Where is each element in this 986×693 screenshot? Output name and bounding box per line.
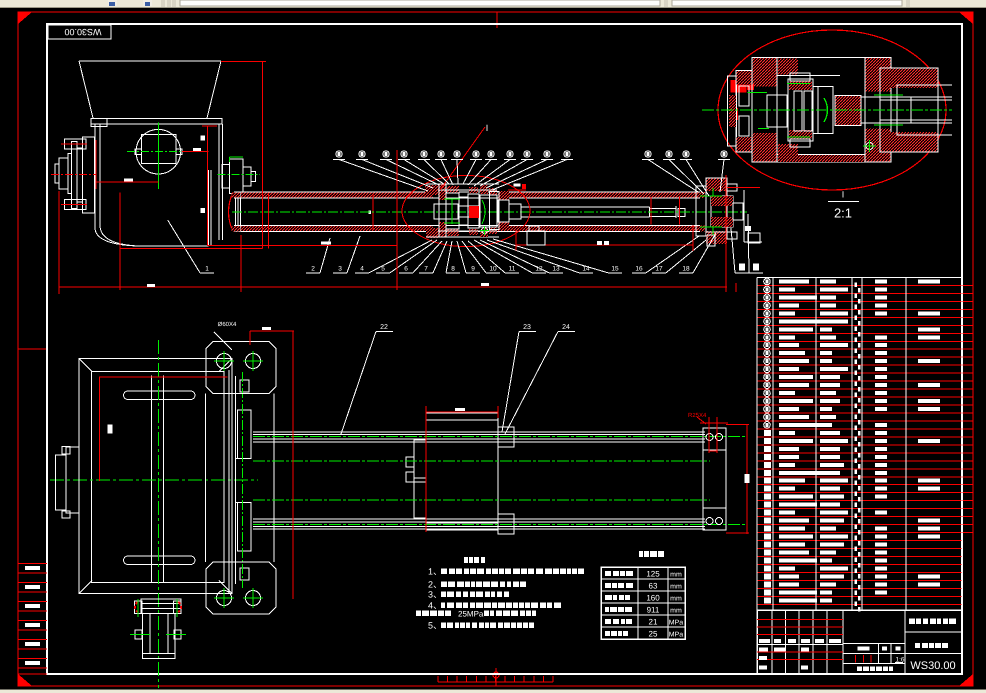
input coupling flange (left) xyxy=(55,137,95,213)
dim pipe length (mid) xyxy=(207,126,397,246)
drive housing right of gearbox xyxy=(222,159,255,194)
tank paddle upper xyxy=(124,391,196,400)
screw shaft inside casing (right) xyxy=(521,206,685,218)
detail label I 2:1 xyxy=(828,190,859,221)
corner mark top-left xyxy=(18,12,32,24)
technical notes lines xyxy=(428,567,584,631)
svg-text:1、: 1、 xyxy=(428,567,442,577)
svg-text:mm: mm xyxy=(670,572,682,579)
svg-text:21: 21 xyxy=(649,618,658,627)
drive housing centerline xyxy=(217,174,259,176)
drive housing green contour xyxy=(230,157,243,162)
guide tube centerlines xyxy=(253,437,745,525)
label fi60X4 xyxy=(214,321,237,350)
part 17 bracket xyxy=(744,190,762,243)
centering mark right xyxy=(955,348,973,350)
svg-text:15: 15 xyxy=(611,266,619,273)
tank-plate connection xyxy=(229,370,251,592)
svg-text:22: 22 xyxy=(380,324,388,331)
dim cylinder top xyxy=(426,406,498,418)
leader 22 xyxy=(341,324,393,434)
screw shaft centerline xyxy=(232,211,747,213)
detail view housing block xyxy=(752,58,891,163)
mid assembly small hole w/ green cross xyxy=(480,226,489,235)
svg-text:mm: mm xyxy=(670,584,682,591)
corner mark bottom-left xyxy=(18,674,32,686)
svg-text:17: 17 xyxy=(655,266,663,273)
svg-text:25: 25 xyxy=(649,630,658,639)
svg-text:I: I xyxy=(486,123,489,133)
detail view shaft chain xyxy=(767,73,952,147)
tank center shaft housing xyxy=(152,376,164,584)
parameter table grid xyxy=(601,567,685,639)
right end plate xyxy=(703,428,726,530)
svg-text:9: 9 xyxy=(471,266,475,273)
svg-text:125: 125 xyxy=(646,570,660,579)
svg-text:24: 24 xyxy=(562,324,570,331)
dim tank inner (red, inside) xyxy=(99,377,228,481)
svg-text:4、: 4、 xyxy=(428,601,442,611)
tank left flange xyxy=(56,447,79,519)
mid assembly green details xyxy=(444,199,485,224)
mounting plate (octagon) xyxy=(206,342,277,614)
dim discharge end (red verticals right) xyxy=(726,175,736,292)
gearbox hole centerlines xyxy=(127,122,181,189)
gearbox weld dots xyxy=(201,136,206,214)
discharge end green marks xyxy=(700,188,722,235)
casing pipe hatched walls xyxy=(234,192,705,231)
svg-text:4: 4 xyxy=(360,266,364,273)
detail view gland stack left xyxy=(728,71,753,152)
svg-text:3: 3 xyxy=(338,266,342,273)
svg-text:MPa: MPa xyxy=(669,632,684,639)
svg-text:3、: 3、 xyxy=(428,590,442,600)
svg-text:mm: mm xyxy=(670,608,682,615)
tank paddle lower xyxy=(124,556,196,565)
discharge end assembly xyxy=(696,178,743,246)
red section mark x373 xyxy=(372,193,374,230)
leader to detail I xyxy=(440,123,488,190)
svg-text:7: 7 xyxy=(424,266,428,273)
gearbox body xyxy=(95,124,222,246)
parameter table heading xyxy=(639,551,643,557)
centering mark top xyxy=(496,12,498,28)
twin guide tubes xyxy=(253,432,705,529)
notes heading xyxy=(464,557,468,563)
dim hopper top xyxy=(120,62,269,249)
tank centerline vertical xyxy=(157,340,159,688)
casing pipe outline xyxy=(234,192,700,231)
marker blob near part 17 xyxy=(745,226,751,231)
centering comb bottom xyxy=(438,668,553,686)
leader 23 xyxy=(502,324,536,432)
extension line x397 xyxy=(396,150,398,290)
bottom discharge tube xyxy=(135,599,182,659)
connection centerline xyxy=(242,372,244,588)
detail view end cap right xyxy=(880,68,952,152)
svg-text:63: 63 xyxy=(649,582,658,591)
red section marks on casing xyxy=(651,197,679,225)
corner mark top-right xyxy=(959,12,973,24)
svg-text:2:1: 2:1 xyxy=(834,206,852,221)
detail view I boundary ellipse xyxy=(718,30,946,190)
svg-text:mm: mm xyxy=(670,596,682,603)
svg-text:MPa: MPa xyxy=(669,620,684,627)
bolt centerlines (red) xyxy=(61,144,87,204)
dim circle position xyxy=(96,140,158,189)
leader 24 xyxy=(505,324,575,434)
casing support bracket xyxy=(527,226,545,245)
callout bubbles top row xyxy=(333,151,730,196)
hopper xyxy=(79,61,222,127)
svg-text:8: 8 xyxy=(451,266,455,273)
detail boundary ellipse I xyxy=(402,176,530,247)
svg-text:23: 23 xyxy=(523,324,531,331)
bearing ball red xyxy=(469,206,479,218)
title block xyxy=(757,610,962,674)
note 4b with 25MPa xyxy=(416,610,536,619)
corner mark bottom-right xyxy=(959,674,973,686)
detail view red seal patches xyxy=(731,80,755,120)
svg-text:5、: 5、 xyxy=(428,621,442,631)
svg-text:2、: 2、 xyxy=(428,580,442,590)
dim plate width (top) xyxy=(250,327,294,599)
svg-text:10: 10 xyxy=(489,266,497,273)
svg-text:160: 160 xyxy=(646,594,660,603)
dim casing right (mid) xyxy=(516,225,693,251)
svg-text:1: 1 xyxy=(205,266,209,273)
hydraulic cylinder block xyxy=(406,413,514,534)
dim plate height (right) xyxy=(726,425,750,535)
casing left dome (red) xyxy=(229,192,241,231)
mixer tank outline xyxy=(79,359,232,594)
status strip (bottom, cropped) xyxy=(0,689,986,693)
tank centerline horizontal xyxy=(50,479,258,481)
svg-text:18: 18 xyxy=(682,266,690,273)
centering mark left xyxy=(18,348,47,350)
input axis centerline (red) xyxy=(51,174,96,176)
dim circle to wall xyxy=(182,126,217,151)
detail view green accents xyxy=(702,84,952,152)
discharge flange bolt marks xyxy=(130,599,186,635)
svg-text:WS30.00: WS30.00 xyxy=(64,27,101,37)
svg-text:11: 11 xyxy=(509,266,516,273)
svg-text:Ø60X4: Ø60X4 xyxy=(218,321,237,328)
application toolbar strip (top, cropped) xyxy=(0,0,986,8)
svg-text:16: 16 xyxy=(635,266,643,273)
svg-text:13: 13 xyxy=(552,266,560,273)
dim cylinder block left (red vertical) xyxy=(425,412,427,532)
svg-text:25MPa: 25MPa xyxy=(458,610,484,619)
dim overall length (bottom) xyxy=(59,191,727,294)
plate bolts xyxy=(214,351,263,608)
title tag WS30.00 (mirrored, top-left) xyxy=(48,25,111,39)
BOM table xyxy=(757,278,973,612)
centerline marker blob xyxy=(369,211,372,215)
svg-text:WS30.00: WS30.00 xyxy=(910,660,955,672)
left margin revision table xyxy=(18,564,47,675)
tolerance label above pipe xyxy=(508,184,526,191)
discharge bolt centerline (red) xyxy=(727,187,760,189)
svg-text:6: 6 xyxy=(404,266,408,273)
dim right end xyxy=(697,417,728,453)
svg-text:911: 911 xyxy=(647,606,660,615)
gearbox inspection hole xyxy=(135,129,182,174)
svg-text:2: 2 xyxy=(311,266,315,273)
part number row bottom xyxy=(168,214,763,273)
svg-text:5: 5 xyxy=(381,266,385,273)
svg-text:I: I xyxy=(842,190,845,200)
mid seal/bearing assembly xyxy=(425,184,521,238)
